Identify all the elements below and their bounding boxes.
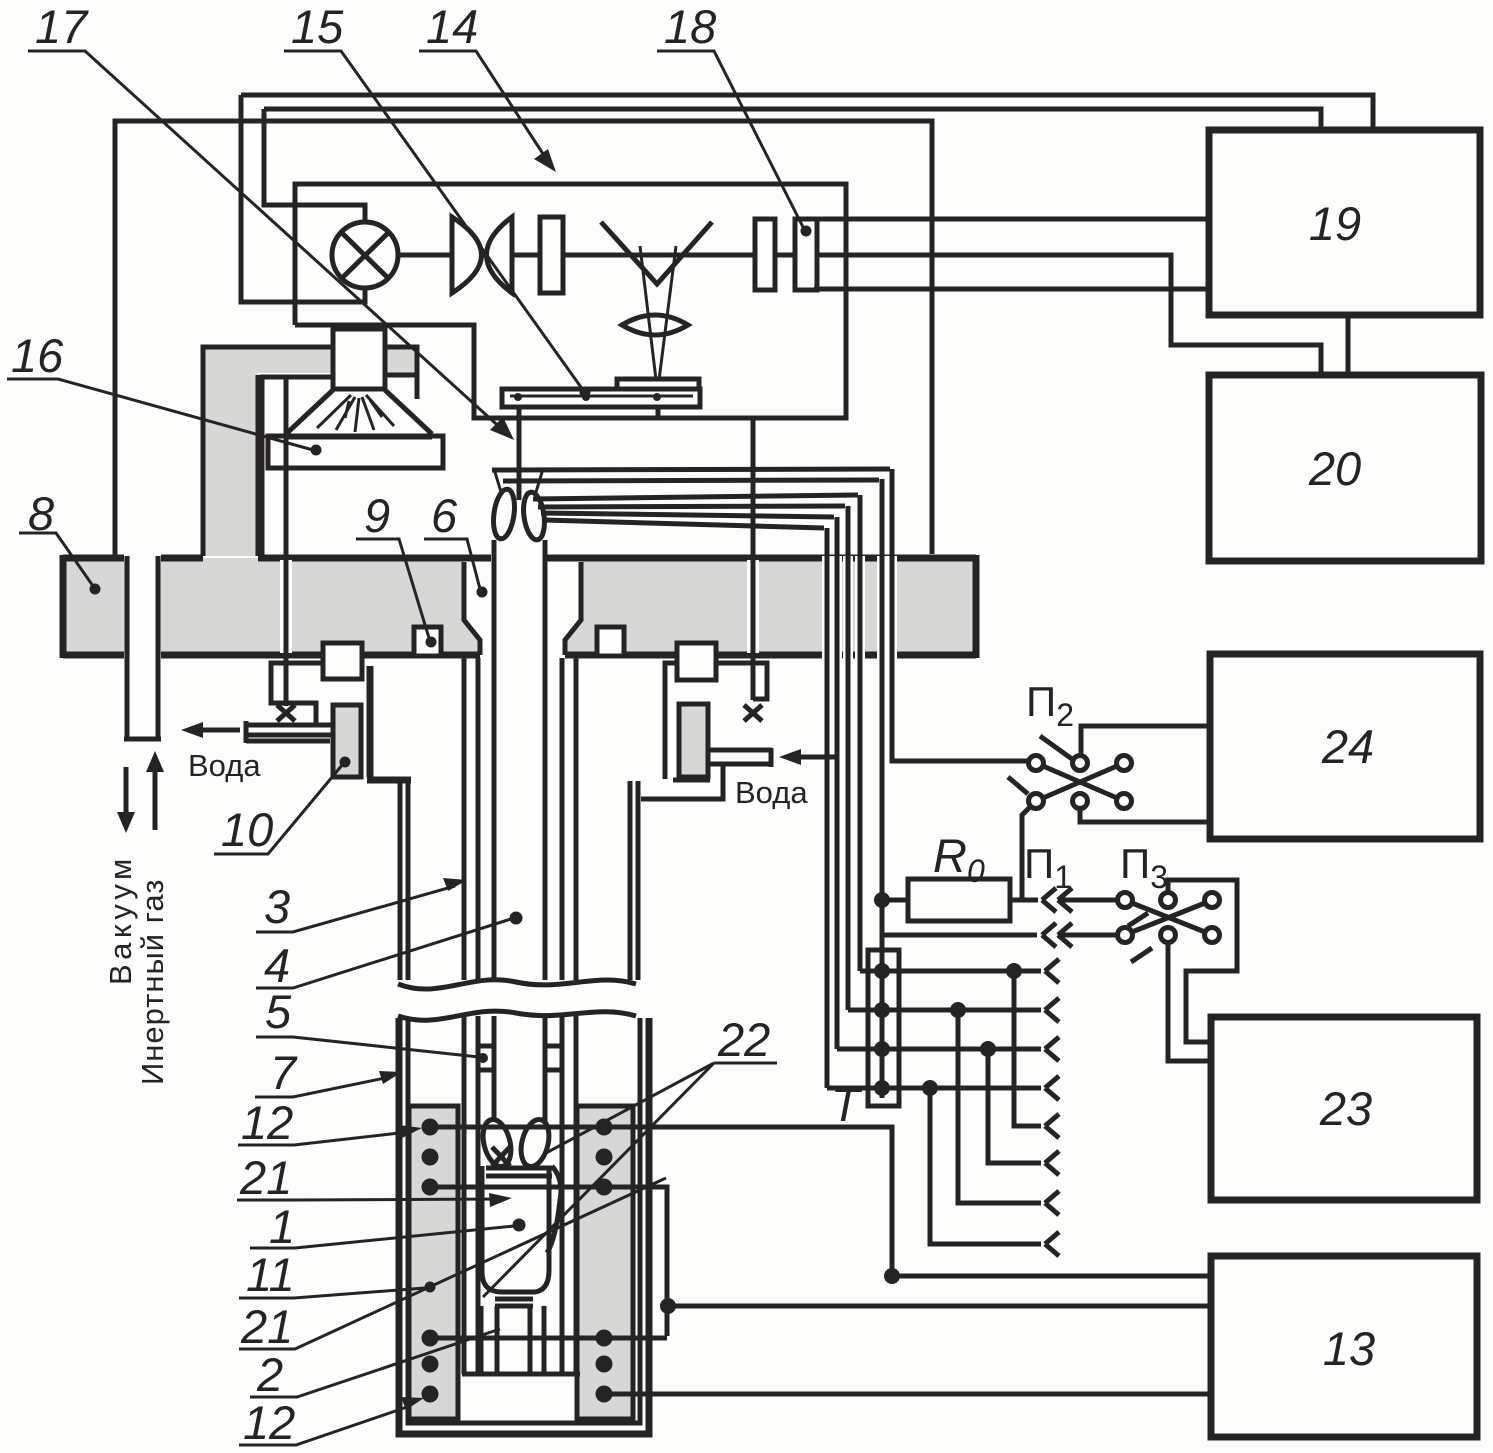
thermocouple petal right: [517, 1117, 554, 1170]
lamp socket block: [333, 329, 385, 389]
lamp L1 (circle with cross): [332, 222, 398, 288]
sample holder rod: [517, 407, 522, 500]
sample stage 15: [502, 389, 700, 407]
P1 chevron row2: [1042, 923, 1072, 947]
right cooling jacket: [679, 704, 708, 777]
svg-text:24: 24: [1321, 720, 1374, 773]
lamp hood trapezoid: [286, 390, 432, 434]
crucible rim 21: [486, 1168, 552, 1176]
thermocouple fan wire 2: [503, 480, 879, 481]
dots row3: [874, 1041, 890, 1057]
petal crossing: [492, 1147, 510, 1166]
box 19: [1209, 130, 1480, 315]
box 24: [1210, 654, 1480, 839]
vacuum down arrow: [124, 767, 129, 818]
detector slit A: [755, 219, 775, 290]
branch r1 to r5: [1014, 971, 1041, 1126]
plug wire row2: [848, 1008, 1041, 1013]
svg-text:Инертный газ: Инертный газ: [135, 879, 170, 1085]
stage fiducial dots: [514, 393, 522, 401]
plug wire row3: [837, 1047, 1041, 1052]
plug chevron r6: [1045, 1151, 1059, 1175]
branch r2 to r7: [958, 1010, 1041, 1203]
tube inner dot 4 target: [510, 912, 523, 925]
svg-text:1: 1: [269, 1200, 295, 1253]
left water arrow: [196, 728, 240, 733]
P1 chevron row1: [1042, 888, 1072, 912]
sample tube walls in furnace: [494, 1016, 545, 1122]
middle tube walls right: [562, 658, 576, 980]
bundle wire halos through plate: [827, 556, 892, 659]
plate 8 gray slab: [63, 558, 976, 655]
branch r4 to r8: [930, 1088, 1041, 1244]
plate step notch right: [597, 627, 624, 656]
left flange outer wall: [367, 666, 411, 780]
label 22 with leaders: [483, 1013, 777, 1297]
svg-text:6: 6: [431, 489, 458, 542]
wire dot to R0: [882, 898, 908, 903]
left flange body: [271, 663, 323, 723]
pedestal lines 2: [495, 1299, 533, 1306]
label 7 with leader: [255, 1046, 402, 1099]
label 1 with leader: [250, 1200, 514, 1253]
wire P3 top-mid to box 23: [1168, 880, 1237, 1042]
stage hanger: [656, 407, 661, 418]
furnace tube walls right: [562, 1016, 576, 1374]
wire lower-dot3 to box 13 (bottom lead): [604, 1392, 1211, 1397]
junction dot R0 tap: [874, 892, 890, 908]
svg-text:16: 16: [11, 329, 64, 382]
label 10 with leader: [214, 757, 351, 857]
label 21 lower with leader: [239, 1178, 666, 1353]
thermo bead left (5): [478, 1046, 494, 1070]
svg-text:5: 5: [265, 985, 292, 1038]
gray support strut and arm: [203, 349, 417, 556]
bundle wire 3 (to row2): [846, 506, 851, 1010]
branch r3 to r6: [988, 1049, 1041, 1163]
bundle wire 6 (to switch P2): [892, 469, 1029, 761]
plug chevron r3: [1045, 1037, 1059, 1061]
wire R0 to P1 row1: [1010, 898, 1038, 903]
svg-text:17: 17: [35, 0, 89, 53]
heater block left (12): [409, 1106, 458, 1419]
wire T block row 935: [883, 933, 1037, 938]
box 23: [1211, 1017, 1477, 1200]
right flange body: [665, 663, 767, 779]
stage sample bar: [617, 379, 699, 389]
thermocouple fan wire 3: [533, 495, 858, 499]
lamp inner box (left wall): [262, 377, 334, 556]
vacuum port tube: [124, 556, 161, 739]
heater coil dots right: [596, 1119, 613, 1403]
plug chevron r7: [1045, 1191, 1059, 1215]
left valve stem: [284, 377, 289, 706]
svg-text:18: 18: [664, 0, 716, 53]
furnace outer box: [399, 1018, 649, 1434]
plate step notch left (9): [414, 627, 441, 656]
switch P2: [1008, 736, 1132, 809]
label 21 upper with leader: [237, 1151, 512, 1207]
wire top outer (lamp to box 19): [241, 95, 1373, 127]
funnel lip lines: [494, 469, 543, 492]
left water pipe: [246, 721, 331, 743]
plate left edge: [60, 555, 67, 658]
label 12 upper with leader: [238, 1096, 422, 1149]
plug chevron r4: [1045, 1076, 1059, 1100]
enclosure wall top/left/right: [115, 121, 932, 557]
crucible 1: [482, 1166, 549, 1292]
valve stem halos through plate: [286, 560, 753, 653]
plate top border: [63, 555, 976, 562]
plug chevron r5: [1045, 1114, 1059, 1138]
condenser lens pair: [452, 217, 512, 293]
plate bottom border: [63, 652, 976, 659]
svg-text:7: 7: [270, 1046, 298, 1099]
svg-text:2: 2: [256, 1348, 283, 1401]
svg-text:10: 10: [221, 803, 273, 856]
slit / diaphragm: [540, 217, 563, 293]
right valve stem: [751, 418, 756, 700]
label 8 with leader: [19, 487, 101, 595]
label 15 with leader: [284, 0, 591, 398]
svg-text:15: 15: [291, 0, 344, 53]
box 20: [1209, 375, 1481, 561]
label 12 lower with leader: [239, 1396, 424, 1449]
sample tube walls: [494, 540, 545, 980]
wire lamp lead 2: [264, 109, 365, 221]
label 5 with leader: [256, 985, 488, 1063]
box 13: [1211, 1256, 1477, 1437]
left flange nipple: [323, 643, 362, 679]
tube bottom line: [462, 1372, 580, 1377]
heater block right: [577, 1106, 633, 1419]
label 17 with leader: [28, 0, 514, 440]
V mirror: [601, 222, 712, 284]
wire detector top to box 19: [814, 217, 1206, 222]
label 2 with leader: [250, 1329, 500, 1401]
strut/arm outline top: [203, 347, 417, 556]
plate hole around tube (white): [464, 554, 581, 658]
middle tube walls left: [464, 658, 478, 980]
label 16 with leader: [7, 329, 322, 456]
dots row2: [874, 1002, 890, 1018]
upper wave break line: [398, 980, 636, 989]
right flange nipple: [677, 643, 716, 680]
right water arrow: [794, 755, 836, 760]
svg-text:Вакуум: Вакуум: [103, 854, 138, 985]
wire to box 13 (top lead): [892, 1274, 1211, 1279]
bundle wire 4 (to row1): [858, 495, 863, 971]
heater coil dots left: [422, 1119, 439, 1403]
svg-text:22: 22: [717, 1013, 770, 1066]
detector slit B (18): [795, 219, 817, 290]
thermocouple sheath pouch: [547, 1166, 561, 1253]
right valve cross: [744, 705, 762, 721]
funnel right petal: [521, 491, 547, 541]
label 4 with leader: [256, 919, 511, 992]
furnace inner box: [408, 1018, 640, 1423]
thermocouple fan wire 4: [538, 506, 845, 507]
plug chevron r1: [1045, 959, 1059, 983]
right water pipe: [710, 748, 772, 767]
dots row1: [874, 963, 890, 979]
svg-text:13: 13: [1323, 1322, 1375, 1375]
strut right edge: [256, 375, 261, 556]
stage inner line: [510, 395, 693, 398]
wire P2-c2 to box 24: [1081, 726, 1210, 755]
thermocouple petal left: [479, 1117, 516, 1170]
svg-text:21: 21: [239, 1151, 292, 1204]
thermo bead right: [545, 1046, 561, 1070]
svg-text:19: 19: [1309, 197, 1361, 250]
svg-text:Вода: Вода: [735, 775, 808, 810]
outer jacket tube walls right: [630, 781, 638, 980]
terminal block T: [868, 950, 899, 1106]
wire box19 bottom to box20 top: [1346, 318, 1351, 372]
wire to box 13 (middle lead): [668, 1304, 1211, 1309]
plug chevron r2: [1045, 998, 1059, 1022]
svg-text:9: 9: [364, 489, 390, 542]
resistor R0: [908, 879, 1010, 921]
right flange lower outline: [641, 766, 723, 799]
focus cone lines: [640, 246, 676, 388]
plug wire row1: [860, 969, 1041, 974]
svg-text:Вода: Вода: [188, 748, 261, 783]
left valve cross: [277, 705, 295, 721]
funnel left petal: [491, 488, 518, 540]
wire P2-c5 to box 24: [1080, 809, 1210, 822]
label 3 with leader: [256, 878, 467, 933]
dots row4: [874, 1080, 890, 1096]
plate hole outline: [464, 562, 581, 655]
wire P3 low-mid to box 23: [1168, 943, 1211, 1061]
hood bottom edge: [286, 435, 432, 440]
plate right edge: [973, 555, 980, 658]
optical unit box 14: [295, 184, 846, 418]
label 18 with leader: [657, 0, 812, 237]
wire lamp lead 1: [241, 95, 365, 302]
coil wire upper-dot1 to box13: [430, 1127, 892, 1275]
plug chevron r8: [1045, 1232, 1059, 1256]
svg-text:23: 23: [1319, 1082, 1372, 1135]
svg-text:12: 12: [243, 1396, 295, 1449]
label 11 with leader: [239, 1248, 436, 1301]
label 14 with leader: [419, 0, 556, 172]
svg-text:3: 3: [264, 880, 290, 933]
wire P2-c4 drop: [1022, 801, 1036, 900]
optical axis wire to box 20: [399, 255, 1321, 372]
lower wave break line: [398, 1011, 636, 1020]
svg-text:21: 21: [240, 1300, 293, 1353]
inert gas up arrow: [153, 766, 158, 830]
svg-text:11: 11: [246, 1248, 295, 1301]
plug wire row4: [827, 1086, 1041, 1091]
coil U-link wire (dot3 to lower dot1): [430, 1187, 667, 1338]
label 9 with leader: [356, 489, 437, 648]
bundle wire 5 (to R0 and terminal T): [880, 479, 885, 1098]
wire P1 row1 to P3: [1062, 898, 1118, 903]
wire P1 row2 to P3: [1062, 933, 1118, 938]
svg-text:14: 14: [426, 0, 478, 53]
furnace tube walls left: [464, 1016, 478, 1374]
lamp rays: [317, 395, 394, 432]
reflector plate 16: [268, 436, 443, 468]
wire top inner (lamp to box 19): [264, 109, 1321, 127]
junction dot at bend: [884, 1268, 900, 1284]
thermocouple fan wire 5: [541, 513, 834, 517]
switch P3: [1118, 893, 1220, 963]
svg-text:12: 12: [241, 1096, 293, 1149]
bundle wire 1 (to row4): [825, 528, 830, 1088]
bundle wire 2 (to row3): [835, 517, 840, 1049]
label 6 with leader: [424, 489, 488, 598]
svg-text:20: 20: [1308, 442, 1361, 495]
thermocouple fan wire 6: [544, 520, 824, 528]
sample dot (1): [513, 1219, 526, 1232]
outer jacket tube walls left: [400, 781, 408, 980]
wire detector bottom to box 19: [814, 287, 1206, 292]
objective lens: [622, 315, 688, 335]
left cooling jacket 10: [333, 705, 361, 777]
pedestal column: [481, 1306, 544, 1374]
junction dot on U-link: [660, 1298, 676, 1314]
thermocouple fan wire 1: [492, 469, 890, 470]
